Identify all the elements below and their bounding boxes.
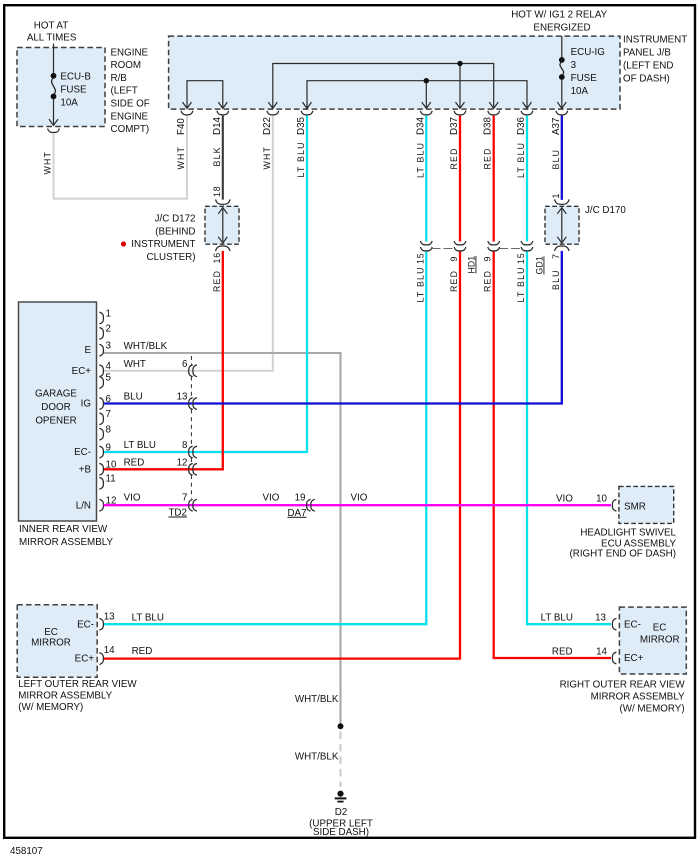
svg-text:RED: RED [483, 147, 493, 169]
svg-text:ALL TIMES: ALL TIMES [27, 32, 77, 43]
svg-text:SIDE OF: SIDE OF [111, 99, 150, 110]
svg-text:10A: 10A [571, 86, 589, 97]
svg-text:9: 9 [483, 256, 493, 262]
svg-text:WHT: WHT [124, 359, 146, 370]
svg-text:LT BLU: LT BLU [516, 142, 526, 178]
label LEFT OUTER REAR VIEW MIRROR ASSEMBLY (W/ MEMORY) [18, 679, 137, 713]
label ENGINE ROOM R/B [111, 47, 150, 135]
label D2 (UPPER LEFT SIDE DASH) [309, 807, 373, 838]
svg-text:D35: D35 [296, 116, 307, 135]
svg-text:D2: D2 [335, 807, 348, 818]
J/C D170 connector cup [555, 199, 570, 204]
svg-text:INNER REAR VIEW: INNER REAR VIEW [19, 524, 108, 535]
svg-text:HEADLIGHT SWIVEL: HEADLIGHT SWIVEL [580, 528, 676, 539]
wire LT BLU D34 [104, 116, 427, 625]
svg-text:MIRROR ASSEMBLY: MIRROR ASSEMBLY [18, 691, 112, 702]
svg-text:J/C D170: J/C D170 [585, 205, 626, 216]
svg-text:DA7: DA7 [287, 508, 306, 519]
svg-text:RED: RED [449, 270, 459, 292]
fuse ECU-B 10A [49, 44, 91, 126]
svg-text:+B: +B [79, 465, 92, 476]
svg-text:DOOR: DOOR [41, 402, 70, 413]
svg-text:7: 7 [106, 409, 111, 420]
svg-text:FUSE: FUSE [60, 85, 87, 96]
J/C D172 box [205, 206, 239, 244]
svg-text:COMPT): COMPT) [111, 124, 150, 135]
svg-text:HOT AT: HOT AT [34, 20, 68, 31]
svg-text:BLU: BLU [124, 392, 143, 403]
svg-text:D38: D38 [483, 116, 494, 135]
svg-text:(W/ MEMORY): (W/ MEMORY) [619, 704, 684, 715]
svg-text:RED: RED [483, 270, 493, 292]
svg-text:9: 9 [449, 256, 459, 262]
label INNER REAR VIEW MIRROR ASSEMBLY [19, 524, 113, 548]
pin names [72, 345, 92, 511]
wire WHT D22 down to pin4 row [104, 116, 273, 371]
svg-text:3: 3 [106, 341, 112, 352]
label INSTRUMENT PANEL J/B [623, 35, 687, 85]
svg-text:WHT: WHT [176, 146, 186, 170]
J/C D170 box [545, 206, 579, 244]
svg-text:CLUSTER): CLUSTER) [147, 252, 196, 263]
svg-text:WHT/BLK: WHT/BLK [295, 751, 339, 762]
svg-text:LEFT OUTER REAR VIEW: LEFT OUTER REAR VIEW [18, 679, 137, 690]
svg-text:10: 10 [106, 460, 117, 471]
svg-text:BLK: BLK [212, 146, 222, 166]
svg-text:EC+: EC+ [624, 653, 644, 664]
svg-text:J/C D172: J/C D172 [155, 214, 196, 225]
garage door opener box [19, 302, 97, 521]
svg-text:(RIGHT END OF DASH): (RIGHT END OF DASH) [570, 549, 677, 560]
junction dot [338, 723, 344, 729]
mid connectors D34 D37 D38 D36 [420, 241, 432, 245]
svg-text:EC+: EC+ [72, 366, 92, 377]
connector link lines [432, 247, 456, 249]
svg-text:8: 8 [106, 425, 112, 436]
instrument panel J/B box [169, 36, 620, 109]
svg-text:1: 1 [106, 308, 111, 319]
label GARAGE DOOR OPENER [35, 389, 77, 427]
svg-text:HOT W/ IG1 2 RELAY: HOT W/ IG1 2 RELAY [511, 10, 607, 21]
svg-text:18: 18 [212, 186, 222, 197]
svg-text:SMR: SMR [624, 502, 646, 513]
svg-text:IG: IG [81, 399, 91, 410]
svg-text:MIRROR ASSEMBLY: MIRROR ASSEMBLY [591, 692, 685, 703]
J/B internal bus D22-D37-D38 [273, 64, 494, 109]
svg-text:BLU: BLU [551, 149, 561, 170]
svg-text:LT BLU: LT BLU [516, 266, 526, 302]
svg-text:14: 14 [104, 645, 115, 656]
svg-text:F40: F40 [176, 118, 187, 135]
wire LT BLU D36 [527, 116, 611, 625]
right mirror pins [612, 618, 616, 630]
pin numbers 1-12 [106, 308, 117, 506]
column labels F40..A37 [176, 116, 562, 135]
J/B internal bus D35-D34-D36 [307, 81, 527, 108]
wire RED D37 [104, 116, 461, 659]
svg-text:14: 14 [596, 646, 607, 657]
svg-text:FUSE: FUSE [571, 73, 598, 84]
svg-text:1: 1 [551, 193, 561, 199]
svg-text:6: 6 [106, 394, 112, 405]
svg-text:(LEFT END: (LEFT END [623, 60, 673, 71]
svg-text:A37: A37 [551, 118, 562, 135]
SMR connector [612, 499, 616, 511]
wire LT BLU D35 down to pin9 row [104, 116, 308, 452]
svg-text:13: 13 [177, 392, 188, 403]
wire WHT/BLK pin3 row to ground leg [104, 353, 341, 724]
svg-text:D22: D22 [262, 117, 273, 135]
dashed ground wire [340, 732, 342, 788]
svg-text:ENGINE: ENGINE [111, 111, 149, 122]
svg-text:VIO: VIO [124, 492, 141, 503]
svg-text:ENGINE: ENGINE [111, 47, 149, 58]
wire RED from J/C D172 to +B row [104, 251, 223, 469]
svg-text:9: 9 [106, 442, 111, 453]
engine room R/B box (ECU-B fuse) [17, 48, 105, 127]
TD2 dashed line [190, 356, 192, 499]
connector below ECU-B box [48, 129, 60, 133]
ground D2 [335, 791, 347, 802]
svg-text:ENERGIZED: ENERGIZED [533, 23, 590, 34]
svg-text:12: 12 [177, 457, 188, 468]
svg-text:R/B: R/B [111, 73, 128, 84]
svg-text:LT BLU: LT BLU [124, 440, 156, 451]
connector cups below J/B [181, 111, 193, 115]
svg-text:3: 3 [571, 60, 577, 71]
svg-text:2: 2 [106, 324, 111, 335]
svg-text:19: 19 [295, 492, 306, 503]
SMR box [619, 486, 674, 523]
svg-text:PANEL J/B: PANEL J/B [623, 48, 671, 59]
wire BLU J/C D170 to IG row [104, 251, 562, 404]
svg-text:15: 15 [516, 253, 526, 264]
svg-text:ECU-B: ECU-B [60, 72, 91, 83]
svg-text:RED: RED [124, 457, 145, 468]
svg-text:EC-: EC- [624, 619, 641, 630]
svg-text:458107: 458107 [10, 846, 43, 856]
red bullet [121, 241, 126, 246]
svg-text:HD1: HD1 [467, 256, 477, 274]
svg-text:(BEHIND: (BEHIND [155, 227, 195, 238]
left mirror box [17, 605, 97, 677]
svg-text:RED: RED [132, 646, 153, 657]
svg-text:RIGHT OUTER REAR VIEW: RIGHT OUTER REAR VIEW [560, 680, 686, 691]
label J/C D172 (BEHIND INSTRUMENT CLUSTER) [131, 214, 195, 264]
svg-text:EC: EC [44, 627, 58, 638]
svg-text:BLU: BLU [551, 269, 561, 290]
fuse ECU-IG 3 10A [557, 36, 605, 108]
svg-text:LT BLU: LT BLU [296, 141, 306, 177]
left mirror pins [99, 618, 103, 630]
svg-text:RED: RED [552, 646, 573, 657]
row labels at garage door opener [124, 341, 188, 503]
svg-text:OF DASH): OF DASH) [623, 73, 670, 84]
svg-text:10A: 10A [60, 97, 78, 108]
label HOT W/ IG1 2 RELAY ENERGIZED [511, 10, 607, 34]
svg-text:LT BLU: LT BLU [415, 142, 425, 178]
svg-text:(LEFT: (LEFT [111, 86, 138, 97]
svg-text:EC: EC [653, 623, 667, 634]
svg-text:D37: D37 [449, 117, 460, 135]
svg-text:GARAGE: GARAGE [35, 389, 77, 400]
svg-text:11: 11 [106, 474, 116, 485]
svg-text:MIRROR: MIRROR [31, 638, 71, 649]
svg-text:LT BLU: LT BLU [132, 612, 164, 623]
svg-text:RED: RED [212, 270, 222, 292]
label HEADLIGHT SWIVEL ECU ASSEMBLY [570, 528, 677, 560]
svg-text:LT BLU: LT BLU [415, 266, 425, 302]
svg-text:16: 16 [212, 252, 222, 263]
svg-text:INSTRUMENT: INSTRUMENT [131, 239, 195, 250]
svg-text:8: 8 [182, 440, 188, 451]
svg-text:SIDE DASH): SIDE DASH) [313, 827, 369, 838]
wire WHT from ECU-B to F40 [54, 116, 188, 199]
wire VIO L/N row [104, 504, 612, 506]
svg-text:TD2: TD2 [168, 508, 187, 519]
TD2 connectors [189, 365, 197, 511]
wire RED D38 [494, 116, 611, 658]
garage door opener pins 1-12 [99, 312, 103, 511]
svg-text:D14: D14 [212, 116, 223, 135]
svg-text:L/N: L/N [76, 500, 91, 511]
svg-text:MIRROR: MIRROR [640, 635, 680, 646]
svg-text:INSTRUMENT: INSTRUMENT [623, 35, 687, 46]
svg-text:D36: D36 [516, 116, 527, 135]
svg-text:VIO: VIO [556, 494, 573, 505]
wire BLK D14 to J/C D172 [222, 116, 224, 200]
svg-text:15: 15 [415, 253, 425, 264]
svg-text:GD1: GD1 [535, 256, 545, 274]
J/C D172 connector cup [216, 199, 231, 204]
svg-text:5: 5 [106, 373, 112, 384]
svg-text:WHT: WHT [43, 151, 53, 175]
svg-text:VIO: VIO [351, 492, 368, 503]
svg-text:7: 7 [182, 492, 187, 503]
svg-text:4: 4 [106, 361, 112, 372]
svg-text:LT BLU: LT BLU [541, 612, 573, 623]
svg-text:EC-: EC- [77, 619, 94, 630]
svg-text:ECU-IG: ECU-IG [571, 47, 605, 58]
svg-text:13: 13 [104, 611, 115, 622]
wire BLU A37 to J/C D170 [561, 116, 563, 200]
svg-text:ROOM: ROOM [111, 60, 141, 71]
right mirror box [619, 607, 686, 674]
svg-text:EC+: EC+ [75, 654, 95, 665]
label RIGHT OUTER REAR VIEW MIRROR ASSEMBLY (W/ MEMORY) [560, 680, 686, 715]
svg-text:7: 7 [551, 253, 561, 259]
J/B internal bus F40-D14 [187, 81, 223, 108]
label HOT AT ALL TIMES [27, 20, 77, 43]
svg-text:RED: RED [449, 147, 459, 169]
svg-text:13: 13 [595, 612, 606, 623]
svg-text:WHT/BLK: WHT/BLK [295, 694, 339, 705]
svg-text:OPENER: OPENER [35, 416, 76, 427]
svg-text:E: E [84, 345, 91, 356]
svg-text:EC-: EC- [74, 447, 91, 458]
svg-text:VIO: VIO [263, 492, 280, 503]
svg-text:6: 6 [182, 359, 188, 370]
svg-text:MIRROR ASSEMBLY: MIRROR ASSEMBLY [19, 537, 113, 548]
svg-text:WHT: WHT [262, 146, 272, 170]
svg-text:(W/ MEMORY): (W/ MEMORY) [18, 702, 83, 713]
DA7 connector [307, 499, 311, 511]
svg-text:D34: D34 [415, 116, 426, 135]
svg-text:WHT/BLK: WHT/BLK [124, 341, 168, 352]
svg-text:10: 10 [596, 494, 607, 505]
